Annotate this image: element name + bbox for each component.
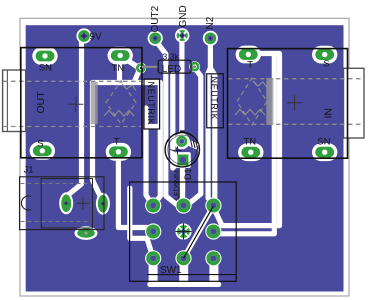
svg-text:D1: D1 [183,168,193,180]
svg-text:TN: TN [244,137,257,148]
svg-text:TN: TN [112,63,125,74]
svg-text:OUT: OUT [35,91,47,114]
svg-text:NEUTRIK: NEUTRIK [209,77,219,121]
svg-text:3.3k: 3.3k [163,51,180,61]
svg-text:S: S [323,59,329,70]
svg-text:9V: 9V [90,32,103,43]
svg-text:SN: SN [39,63,52,74]
svg-text:NEUTRIK: NEUTRIK [146,82,156,126]
svg-text:GND: GND [178,5,189,27]
svg-text:SW1: SW1 [160,265,182,276]
svg-text:J1: J1 [24,165,34,176]
svg-text:T: T [247,60,253,71]
svg-text:LED: LED [162,64,181,75]
svg-text:T: T [114,137,120,148]
svg-text:N2: N2 [205,16,216,29]
svg-text:OUT2: OUT2 [150,5,161,32]
svg-text:LED5MM: LED5MM [172,170,181,200]
svg-text:IN: IN [323,108,335,119]
svg-text:S: S [37,138,43,149]
svg-text:SN: SN [317,137,330,148]
